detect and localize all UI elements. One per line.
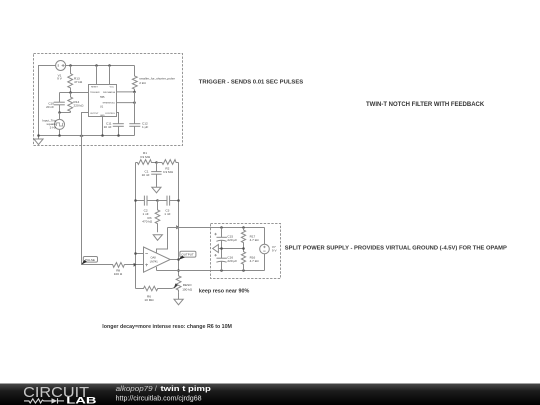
svg-text:10 nF: 10 nF — [104, 125, 112, 129]
node output crossing — [80, 134, 84, 137]
555 timer U1 box — [89, 66, 117, 117]
wire op-amp V- stub — [156, 267, 158, 271]
resistor R6 10M — [136, 286, 173, 302]
svg-text:2 kΩ: 2 kΩ — [139, 81, 146, 85]
wire V+ rail — [168, 227, 265, 229]
svg-text:100 Ω: 100 Ω — [114, 272, 123, 276]
resistor R2 3.9M — [157, 160, 179, 175]
flag virtual ground arrow — [213, 245, 219, 253]
wire twin-T bottom path — [136, 200, 145, 202]
op-amp OA8 LM741 — [144, 247, 171, 272]
node V- rail RESO — [177, 269, 180, 272]
wire 555 OUTPUT to pulse column — [82, 113, 89, 265]
svg-text:TRIGGER - SENDS 0.01 SEC PULSE: TRIGGER - SENDS 0.01 SEC PULSES — [199, 80, 303, 86]
node GND rail — [101, 134, 104, 137]
node DISCHARGE — [133, 91, 136, 94]
node left column bottom path — [134, 199, 137, 202]
svg-text:100 kΩ: 100 kΩ — [182, 288, 193, 292]
potentiometer RESO 100k — [172, 271, 192, 293]
svg-text:1 μF: 1 μF — [142, 125, 148, 129]
flag OUTPUT — [178, 251, 196, 260]
capacitor C3 1nF — [158, 196, 179, 216]
svg-text:1 nF: 1 nF — [164, 212, 170, 216]
capacitor C2 1nF — [142, 196, 157, 216]
svg-text:VCC: VCC — [110, 87, 115, 89]
svg-text:3.9 MΩ: 3.9 MΩ — [163, 170, 174, 174]
svg-text:http://circuitlab.com/cjrdg68: http://circuitlab.com/cjrdg68 — [116, 394, 202, 403]
wire twin-T right column — [178, 163, 180, 276]
svg-text:9 V: 9 V — [57, 76, 63, 80]
voltage source V1 — [56, 61, 66, 81]
svg-text:longer decay=more intense reso: longer decay=more intense reso: change R… — [102, 324, 232, 330]
svg-text:PULSE: PULSE — [85, 258, 95, 262]
node V+ R17 — [242, 226, 245, 229]
wire 2k column down — [134, 92, 136, 124]
node C2/C3/R3 — [156, 199, 159, 202]
wire top rail left — [39, 66, 56, 136]
node mid C15/C16 — [220, 247, 223, 250]
svg-text:TWIN-T NOTCH FILTER WITH FEEDB: TWIN-T NOTCH FILTER WITH FEEDBACK — [366, 102, 485, 108]
svg-text:TRIGGER: TRIGGER — [90, 92, 100, 94]
node inverting input — [134, 252, 137, 255]
svg-text:twin t pimp: twin t pimp — [161, 384, 212, 393]
wire R14 bottom to C10 node — [60, 112, 71, 114]
svg-text:keep reso near 90%: keep reso near 90% — [199, 289, 250, 295]
svg-text:4.7 kΩ: 4.7 kΩ — [250, 259, 260, 263]
SECTION: trigger dashed box — [34, 54, 183, 146]
svg-text:alkopop79: alkopop79 — [116, 384, 154, 393]
wire R13 bottom to 555 TRIGGER pin — [60, 92, 89, 94]
node top rail / R13 — [69, 64, 72, 67]
wire DISCHARGE pin — [117, 91, 135, 93]
node right column bottom path — [177, 199, 180, 202]
ground C1 — [152, 187, 161, 193]
svg-text:U1: U1 — [100, 104, 104, 108]
svg-text:20 nF: 20 nF — [46, 105, 54, 109]
capacitor C15 220uF polarized — [214, 228, 237, 249]
node V- C16 — [220, 269, 223, 272]
svg-text:RESO: RESO — [183, 283, 192, 287]
svg-text:3 Hz: 3 Hz — [50, 125, 57, 129]
node noninverting crossing arrow — [134, 263, 137, 267]
node Input_Trig bottom — [58, 134, 61, 137]
wire virtual ground mid line — [218, 248, 244, 250]
wire THRESHOLD pin — [117, 102, 135, 104]
flag PULSE — [81, 257, 97, 265]
svg-text:RESET: RESET — [91, 87, 99, 89]
node THRESHOLD — [133, 101, 136, 104]
resistor R14 220k — [68, 93, 84, 113]
node top rail / VCC stub — [108, 64, 111, 67]
resistor smaller_for_shorter_pulse 2k — [132, 66, 175, 92]
wire inverting input to twin-T — [136, 253, 144, 255]
ground RESO — [174, 293, 183, 305]
node V- R16 — [242, 269, 245, 272]
wire top rail right — [66, 65, 135, 67]
svg-text:SPLIT POWER SUPPLY - PROVIDES: SPLIT POWER SUPPLY - PROVIDES VIRTUAL GR… — [285, 245, 507, 251]
svg-text:4.7 kΩ: 4.7 kΩ — [250, 238, 260, 242]
capacitor C10 20nF — [46, 93, 65, 113]
node right column supply rail crossing — [176, 225, 179, 229]
wire op-amp V+ riser — [157, 228, 168, 253]
wire CONTROL pin to C11 — [117, 113, 119, 124]
capacitor C1 10nF — [142, 163, 162, 188]
svg-text:220 μF: 220 μF — [227, 238, 237, 242]
svg-text:3.9 MΩ: 3.9 MΩ — [140, 155, 151, 159]
SECTION: split supply dashed box — [211, 224, 281, 279]
svg-text:10 MΩ: 10 MΩ — [144, 298, 154, 302]
svg-text:47 kΩ: 47 kΩ — [74, 80, 83, 84]
svg-text:DISCHARGE: DISCHARGE — [103, 91, 116, 94]
resistor R13 47k — [68, 66, 83, 93]
svg-text:LM741: LM741 — [150, 260, 158, 264]
node C11 rail — [117, 134, 120, 137]
ground R3 — [153, 235, 162, 241]
resistor R8 100 — [82, 263, 125, 276]
resistor R1 3.9M — [136, 151, 157, 164]
svg-text:555: 555 — [100, 95, 105, 99]
svg-text:220 μF: 220 μF — [227, 259, 237, 263]
svg-text:470 kΩ: 470 kΩ — [142, 220, 153, 224]
source Input_Trig square 3Hz — [42, 113, 64, 136]
svg-text:OUTPUT: OUTPUT — [90, 113, 99, 115]
node V+ C15 — [220, 226, 223, 229]
svg-text:OA8: OA8 — [151, 256, 157, 260]
wire noninverting input — [125, 264, 144, 266]
capacitor C11 10nF — [104, 121, 124, 135]
wire GND pin down — [102, 116, 104, 135]
node C10/R14/Input_Trig — [58, 111, 61, 114]
node mid R17/R16 — [242, 247, 245, 250]
resistor R16 4.7k — [241, 249, 259, 271]
capacitor C16 220uF polarized — [214, 249, 237, 271]
node top rail / RESET stub — [95, 64, 98, 67]
svg-text:THRESHOLD: THRESHOLD — [102, 103, 115, 105]
svg-text:smaller_for_shorter_pulse: smaller_for_shorter_pulse — [139, 77, 175, 81]
capacitor C12 1uF — [129, 121, 148, 135]
node R1/R2/C1 — [155, 161, 158, 164]
wire bottom rail — [39, 135, 135, 137]
wire twin-T left column — [135, 163, 137, 289]
resistor R3 470k — [142, 201, 159, 233]
node output junction — [177, 258, 180, 261]
svg-text:10 nF: 10 nF — [142, 173, 150, 177]
svg-text:CONTROL: CONTROL — [105, 113, 116, 115]
wire V- rail — [157, 270, 265, 272]
svg-text:LAB: LAB — [66, 396, 96, 405]
node R13/R14/TRIGGER — [69, 91, 72, 94]
voltage source V7 — [260, 228, 278, 271]
logo resistor-diode glyph — [24, 398, 64, 403]
ground trigger — [34, 134, 43, 144]
resistor R17 4.7k — [241, 228, 259, 249]
svg-text:220 kΩ: 220 kΩ — [74, 103, 85, 107]
svg-text:9 V: 9 V — [272, 248, 278, 252]
wire op-amp output — [170, 259, 178, 261]
svg-text:OUTPUT: OUTPUT — [181, 253, 194, 257]
